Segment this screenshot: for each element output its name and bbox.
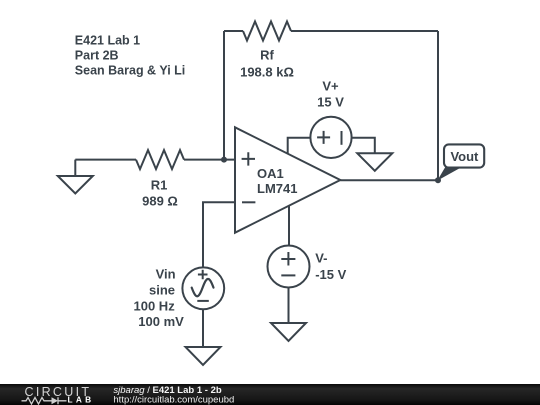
svg-text:sine: sine (149, 282, 175, 297)
label Rf (240, 47, 294, 79)
Vout flag tail (437, 167, 462, 181)
svg-text:15 V: 15 V (317, 94, 344, 109)
svg-text:LAB: LAB (68, 395, 95, 405)
V+ minus mark (vertical bar) (341, 131, 343, 145)
voltage source V+ 15V (310, 117, 351, 158)
wire R1 left lead (75, 159, 136, 161)
label Vout (450, 149, 479, 164)
V+ plus mark (317, 131, 330, 144)
svg-text:100 Hz: 100 Hz (134, 298, 176, 313)
wire V+ to ground (352, 138, 375, 154)
svg-text:Vin: Vin (156, 267, 176, 282)
svg-text:989 Ω: 989 Ω (142, 193, 178, 208)
svg-text:-15 V: -15 V (315, 267, 346, 282)
labels V- -15V (315, 251, 346, 282)
wire op-amp inverting input to Vin (203, 202, 235, 267)
ground GND3 (right of V+) (357, 153, 392, 171)
V- plus mark (281, 252, 295, 266)
svg-text:E421 Lab 1: E421 Lab 1 (75, 33, 140, 47)
wire Vin to ground (202, 309, 204, 347)
node A junction dot (221, 157, 227, 163)
svg-text:V+: V+ (322, 79, 339, 94)
wire left vertical (node A up to Rf) (223, 31, 225, 160)
label OA1 (257, 166, 297, 196)
logo resistor zigzag (22, 397, 67, 404)
wire V- to ground (288, 288, 290, 324)
labels Vin sine 100Hz 100mV (134, 267, 185, 330)
resistor Rf (243, 22, 291, 41)
ground GND1 (left) (74, 160, 76, 176)
voltage source V- -15V (268, 246, 310, 288)
wire top right horizontal (Rf to right corner) (291, 30, 438, 32)
labels V+ 15V (317, 79, 344, 110)
voltage source Vin (sine) (182, 267, 224, 309)
V- minus mark (281, 274, 295, 276)
wire op-amp V+ pin (288, 138, 311, 154)
svg-text:LM741: LM741 (257, 181, 297, 196)
Vout flag box (444, 144, 484, 167)
ground GND2 (below Vin) (186, 347, 221, 365)
header text (75, 33, 185, 77)
wire top left horizontal (node A to Rf) (224, 30, 243, 32)
wire op-amp V- pin (288, 206, 290, 246)
svg-text:Vout: Vout (450, 149, 479, 164)
svg-text:R1: R1 (151, 177, 168, 192)
svg-text:100 mV: 100 mV (138, 314, 184, 329)
node Vout junction dot (435, 177, 441, 183)
Vin + polarity mark (198, 270, 208, 280)
op-amp + input symbol (242, 152, 255, 165)
logo diode (52, 397, 59, 404)
svg-text:V-: V- (315, 251, 327, 266)
svg-text:OA1: OA1 (257, 166, 284, 181)
Vin - polarity mark (197, 300, 209, 302)
svg-text:http://circuitlab.com/cupeubd: http://circuitlab.com/cupeubd (113, 394, 234, 405)
svg-text:Part 2B: Part 2B (75, 48, 119, 62)
op-amp OA1 triangle (235, 127, 340, 232)
svg-text:198.8 kΩ: 198.8 kΩ (240, 65, 294, 80)
resistor R1 (136, 150, 184, 169)
svg-text:Sean Barag & Yi Li: Sean Barag & Yi Li (75, 63, 185, 77)
wire op-amp output to node Vout (340, 179, 438, 181)
svg-text:Rf: Rf (260, 47, 274, 62)
ground GND4 (below V-) (271, 323, 306, 341)
wire right vertical (top corner down to output node) (437, 31, 439, 180)
op-amp - input symbol (242, 201, 255, 203)
label R1 (142, 177, 178, 208)
wire R1 right lead to op-amp + input (184, 159, 235, 161)
Vin sine symbol (192, 279, 214, 296)
